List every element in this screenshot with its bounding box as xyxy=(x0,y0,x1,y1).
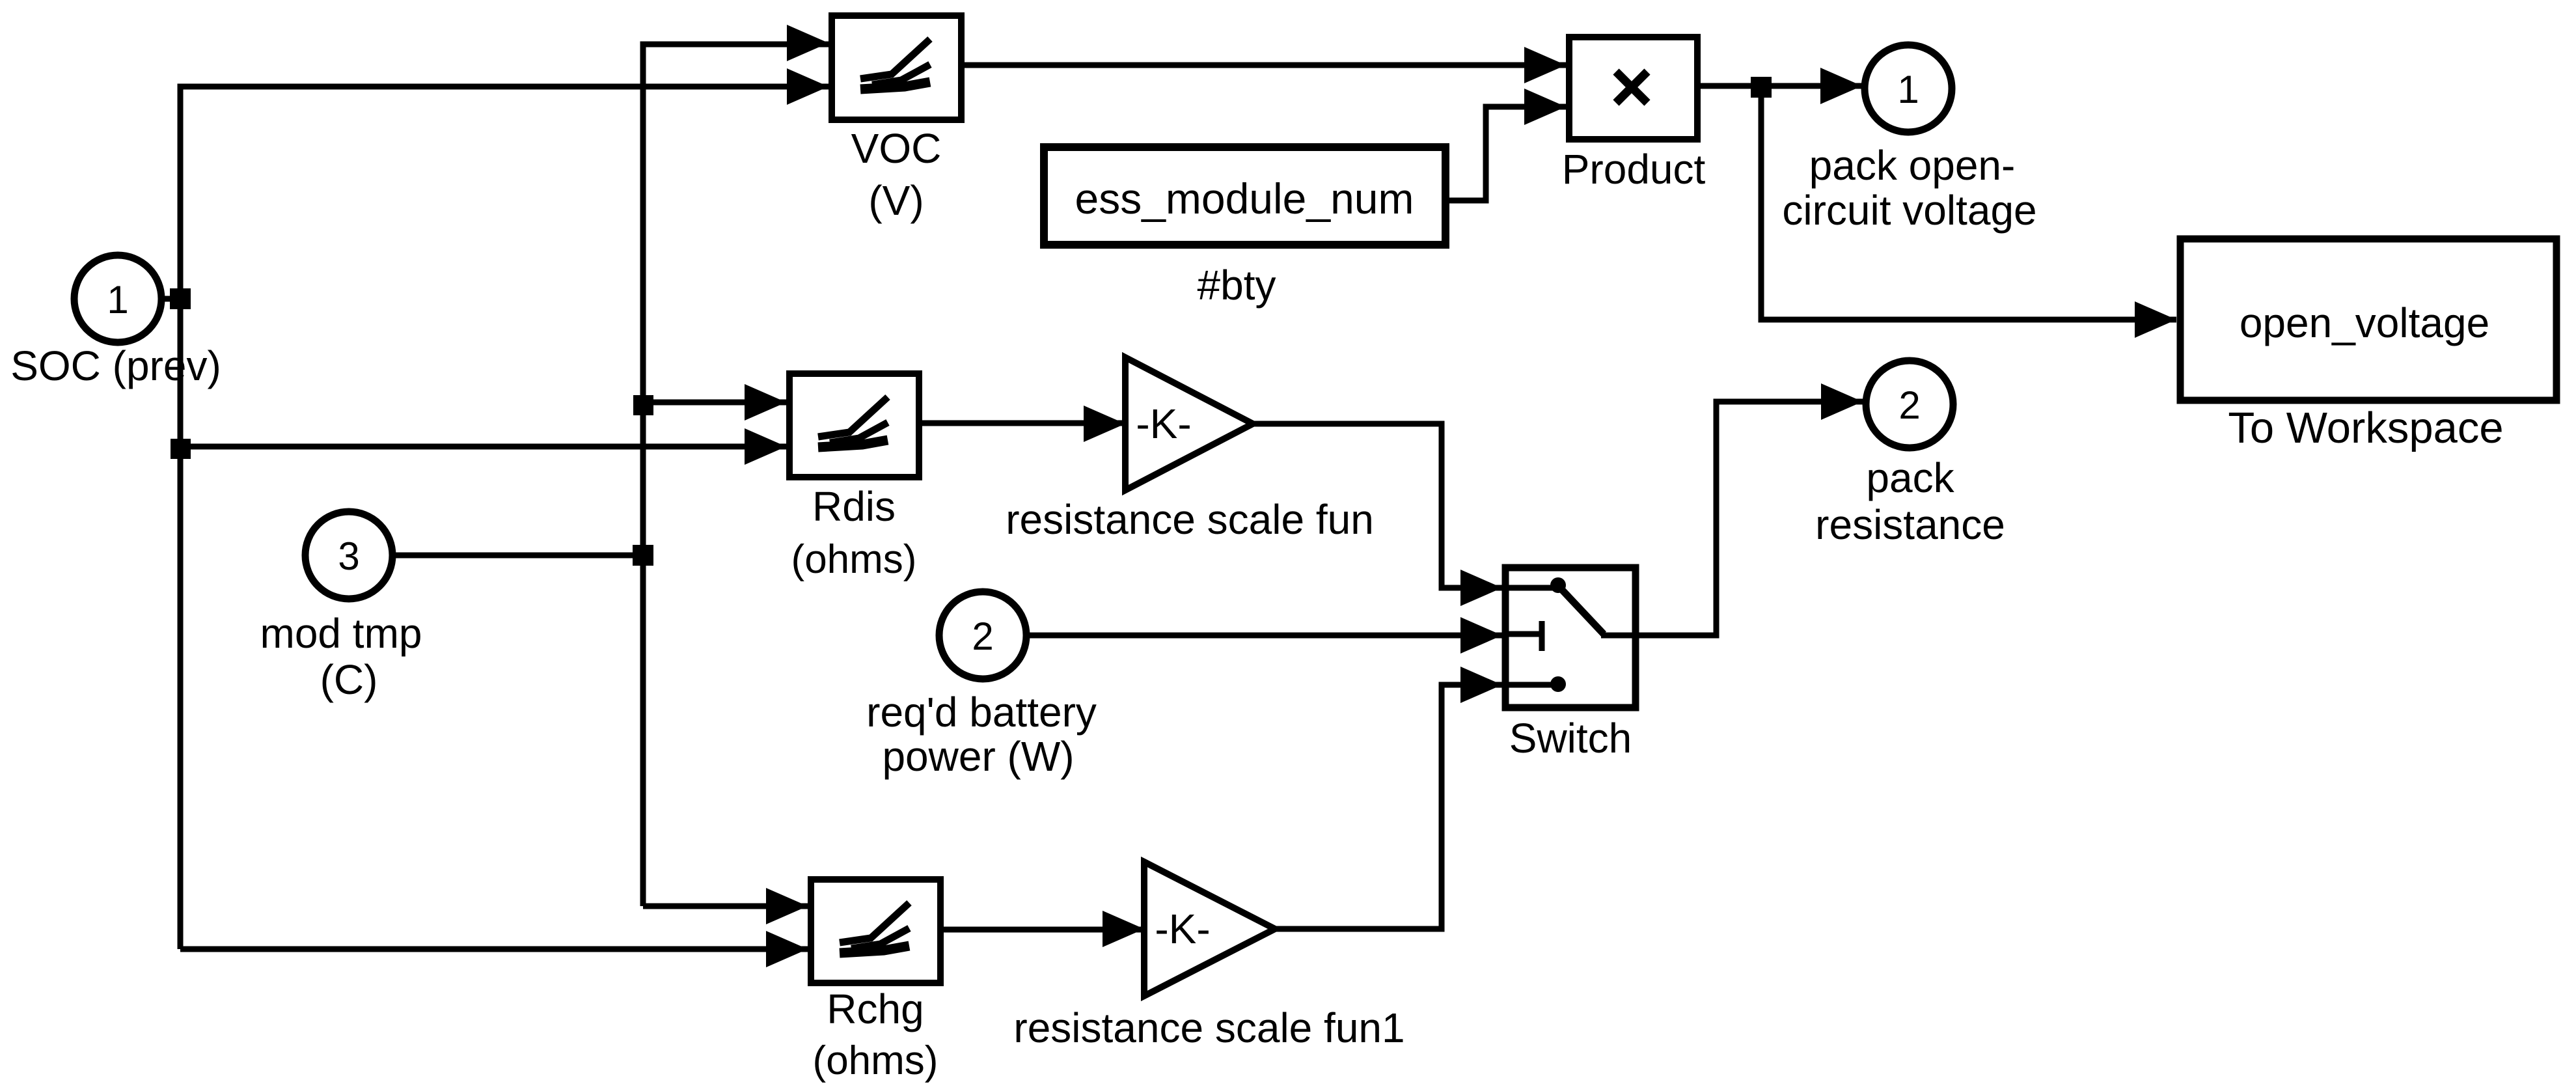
lookup table Rchg (ohms) xyxy=(811,879,940,1083)
wire temp bus to Rdis in1 xyxy=(643,400,786,406)
outport 1 pack open-circuit voltage xyxy=(1782,45,2036,234)
junction node on SOC bus to Rdis in2 xyxy=(171,439,191,459)
svg-text:VOC: VOC xyxy=(851,125,942,172)
svg-text:(ohms): (ohms) xyxy=(791,537,917,582)
to workspace block open_voltage xyxy=(2180,239,2556,452)
wire ess_module_num out to Product in2 xyxy=(1449,107,1566,200)
junction node on temp bus to Rdis in1 xyxy=(633,395,653,415)
svg-text:-K-: -K- xyxy=(1155,905,1210,952)
svg-text:(C): (C) xyxy=(320,656,378,703)
arrowhead into Product in1 xyxy=(1524,47,1566,83)
svg-text:circuit voltage: circuit voltage xyxy=(1782,187,2036,234)
svg-text:Switch: Switch xyxy=(1509,715,1632,762)
svg-text:resistance scale fun: resistance scale fun xyxy=(1006,496,1374,543)
svg-text:mod tmp: mod tmp xyxy=(260,610,422,657)
svg-text:req'd battery: req'd battery xyxy=(866,689,1097,736)
constant block ess_module_num / #bty xyxy=(1044,147,1446,309)
svg-text:#bty: #bty xyxy=(1198,262,1276,309)
wire VOC out to Product in1 xyxy=(965,62,1566,68)
arrowhead into Switch in1 xyxy=(1460,570,1502,606)
svg-text:Rdis: Rdis xyxy=(812,483,896,530)
svg-text:2: 2 xyxy=(972,615,993,658)
arrowhead into Rdis in2 xyxy=(745,428,786,465)
arrowhead into port 1 pack open-circuit voltage xyxy=(1820,68,1862,104)
svg-text:Rchg: Rchg xyxy=(827,986,924,1032)
svg-text:open_voltage: open_voltage xyxy=(2240,299,2489,346)
inport 3 mod tmp (C) xyxy=(260,512,422,703)
arrowhead into port 2 pack resistance xyxy=(1821,383,1863,420)
svg-text:resistance scale fun1: resistance scale fun1 xyxy=(1013,1004,1404,1051)
gain1 resistance scale fun1 xyxy=(1013,862,1404,1051)
wire port 2 to Switch in2 xyxy=(1030,633,1502,639)
product block xyxy=(1562,37,1706,193)
switch block xyxy=(1505,568,1639,762)
gain resistance scale fun xyxy=(1006,357,1374,543)
wire Switch out to port 2 pack resistance xyxy=(1639,402,1863,635)
arrowhead into Product in2 xyxy=(1524,89,1566,125)
lookup table VOC (V) xyxy=(832,16,961,224)
svg-text:pack: pack xyxy=(1866,454,1954,501)
wire SOC bus from port 1 (vertical x=277, top corner to VOC in2, bottom corner to Rchg in2) xyxy=(165,87,829,949)
svg-text:-K-: -K- xyxy=(1136,400,1191,447)
svg-text:(V): (V) xyxy=(868,177,924,224)
arrowhead into VOC in1 xyxy=(787,25,829,61)
svg-text:1: 1 xyxy=(1897,68,1919,111)
inport 2 req'd battery power (W) xyxy=(866,592,1097,780)
svg-text:2: 2 xyxy=(1898,383,1920,427)
svg-text:resistance: resistance xyxy=(1815,501,2005,548)
arrowhead into Switch in2 xyxy=(1460,617,1502,654)
wire SOC bus to Rdis in2 xyxy=(180,444,786,450)
lookup table Rdis (ohms) xyxy=(789,374,919,582)
arrowhead into gain xyxy=(1084,406,1125,442)
wire mod-tmp bus (vertical x=988, top corner to VOC in1, bottom corner to Rchg in1) xyxy=(643,44,829,906)
wire Rchg out to gain1 xyxy=(944,927,1144,933)
arrowhead into Rchg in1 xyxy=(766,888,808,924)
svg-text:SOC (prev): SOC (prev) xyxy=(10,342,221,389)
inport 1 SOC (prev) xyxy=(10,255,221,389)
arrowhead into gain1 xyxy=(1103,911,1144,947)
junction node on Product output xyxy=(1751,77,1772,98)
svg-text:1: 1 xyxy=(107,278,128,322)
junction node on SOC bus at port 1 xyxy=(170,288,191,309)
svg-text:(ohms): (ohms) xyxy=(813,1038,939,1083)
svg-text:3: 3 xyxy=(338,534,359,578)
arrowhead into Switch in3 xyxy=(1460,667,1502,703)
wire gain out to Switch in1 xyxy=(1253,424,1502,588)
wire gain1 out to Switch in3 xyxy=(1275,685,1502,929)
arrowhead into Rchg in2 xyxy=(766,931,808,967)
svg-text:To Workspace: To Workspace xyxy=(2228,404,2503,452)
arrowhead into Rdis in1 xyxy=(745,384,786,421)
arrowhead into To Workspace xyxy=(2135,301,2176,338)
arrowhead into VOC in2 xyxy=(787,68,829,105)
svg-text:pack open-: pack open- xyxy=(1809,142,2016,189)
svg-text:ess_module_num: ess_module_num xyxy=(1075,174,1414,223)
junction node on temp bus at port 3 xyxy=(633,545,653,566)
wire Product out to port 1 and To Workspace xyxy=(1701,86,2176,320)
outport 2 pack resistance xyxy=(1815,361,2005,548)
svg-text:power (W): power (W) xyxy=(882,733,1074,780)
wire port 3 to temp bus xyxy=(396,553,643,559)
svg-text:Product: Product xyxy=(1562,146,1706,193)
wire Rdis out to gain xyxy=(922,421,1125,426)
